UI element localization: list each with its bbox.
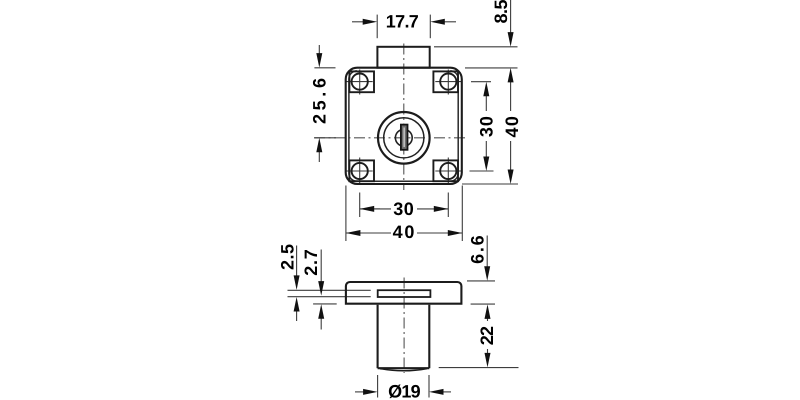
svg-text:30: 30 — [476, 116, 496, 137]
svg-text:30: 30 — [393, 199, 414, 219]
svg-text:8.5: 8.5 — [491, 0, 511, 24]
svg-text:2.7: 2.7 — [301, 249, 321, 276]
svg-text:2.5: 2.5 — [278, 244, 298, 270]
svg-text:25.6: 25.6 — [310, 78, 330, 124]
svg-text:40: 40 — [393, 222, 415, 242]
svg-text:Ø19: Ø19 — [388, 381, 421, 400]
svg-text:40: 40 — [502, 116, 522, 138]
svg-text:17.7: 17.7 — [386, 12, 419, 32]
svg-text:22: 22 — [477, 326, 497, 345]
svg-text:6.6: 6.6 — [468, 235, 488, 264]
